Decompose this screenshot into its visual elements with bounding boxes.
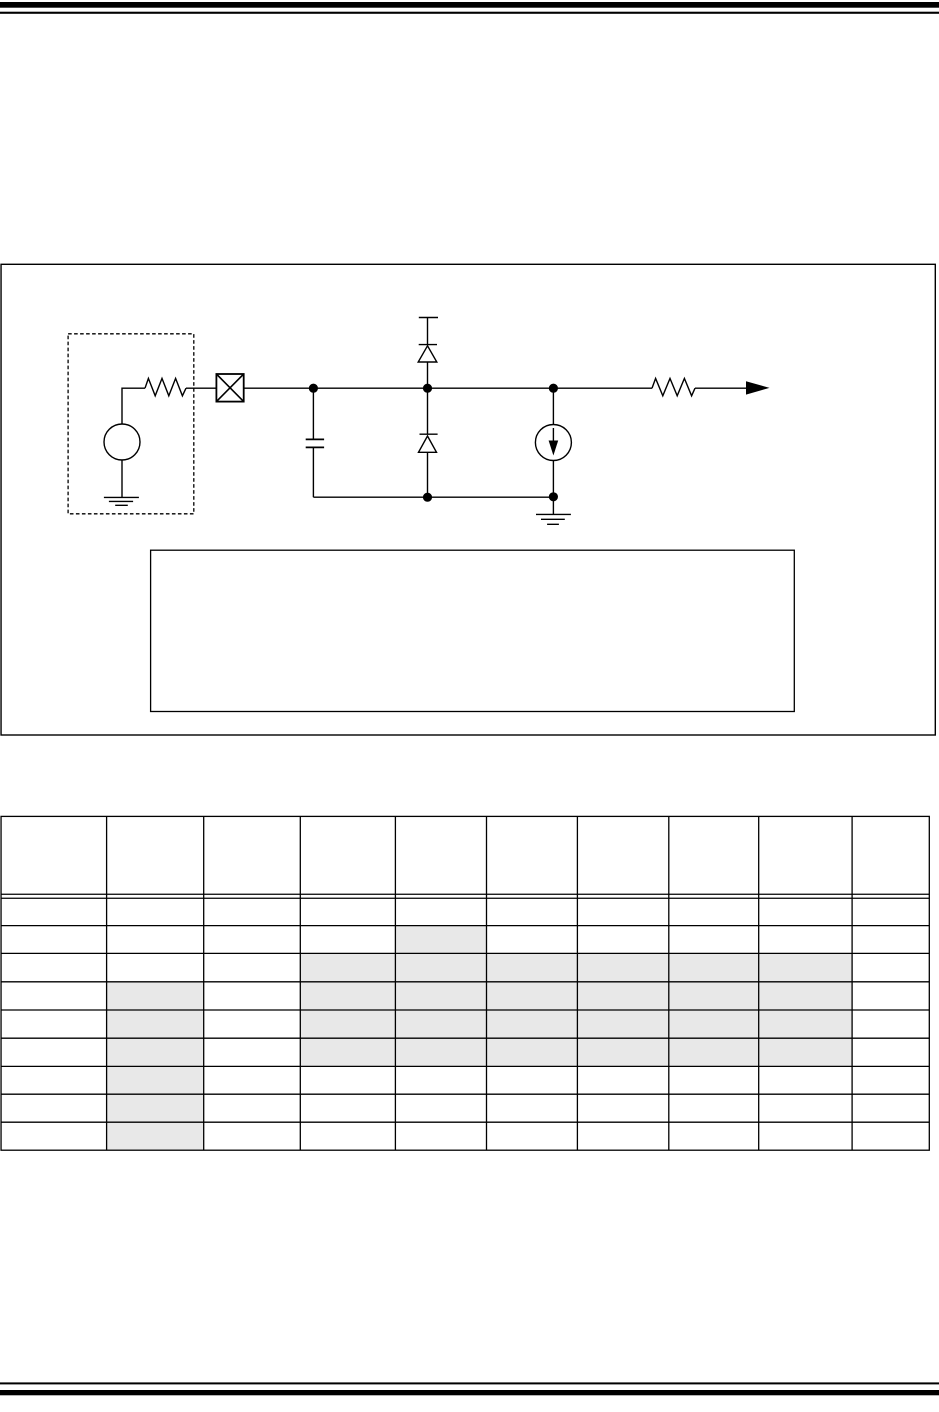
voltage source VA [104, 424, 140, 460]
top header rule thick [0, 2, 939, 8]
figure frame [1, 264, 935, 735]
capacitor plates [306, 439, 324, 447]
node dot E [549, 492, 558, 501]
resistor RIC [652, 378, 695, 395]
note box [151, 550, 795, 711]
wire D2 to rail [427, 452, 429, 497]
wire pin to output resistor [244, 387, 652, 389]
dashed source box [68, 334, 194, 514]
wire resistor to pin [186, 387, 216, 389]
wire VDD to diode D1 [427, 318, 429, 345]
wire rail to ground [552, 497, 554, 515]
bottom footer rule thick [0, 1390, 939, 1395]
VDD tee bar [419, 317, 438, 319]
current source ILEAKAGE circle [535, 425, 571, 461]
wire node to current source [552, 388, 554, 424]
node dot A [309, 384, 318, 393]
arrowhead to sampling switch [746, 381, 770, 394]
table grid [1, 816, 929, 1150]
diode D1 cathode bar [419, 344, 437, 346]
wire to ADC arrow [695, 387, 747, 389]
wire D1 to node [427, 362, 429, 388]
wire node to diode D2 [427, 388, 429, 434]
capacitor stem bottom [312, 447, 314, 497]
capacitor stem top [312, 388, 314, 439]
ground VSS right [536, 514, 571, 524]
node dot B [423, 384, 432, 393]
wire current source to rail [552, 461, 554, 497]
ground VSS left [104, 497, 139, 505]
current source arrow [552, 428, 554, 445]
node dot D [423, 493, 432, 502]
bottom rail wire [313, 496, 553, 498]
diode D1 triangle [418, 346, 437, 362]
node dot C [549, 384, 558, 393]
wire source to ground left [121, 460, 123, 497]
bottom footer rule thin [0, 1382, 939, 1384]
table shading [107, 926, 853, 1151]
wire source to resistor [122, 388, 145, 424]
diode D2 cathode bar [420, 433, 438, 435]
pin pad symbol (box with X) [216, 374, 243, 402]
top header rule thin [0, 12, 939, 14]
resistor RS [145, 378, 186, 395]
diode D2 triangle [419, 436, 437, 452]
